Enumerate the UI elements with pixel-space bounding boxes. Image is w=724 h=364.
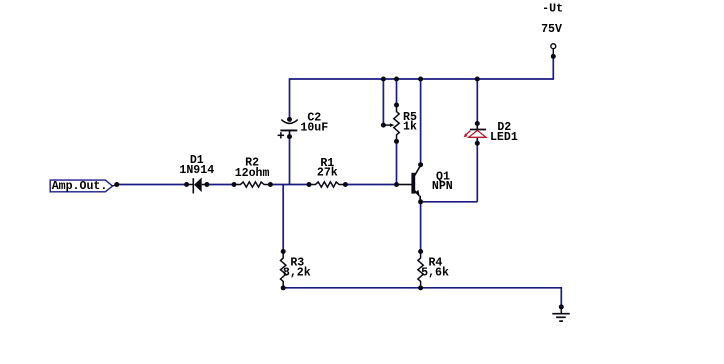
svg-text:27k: 27k [317,167,338,180]
svg-text:1N914: 1N914 [179,164,214,177]
svg-text:NPN: NPN [432,180,453,193]
svg-text:12ohm: 12ohm [235,167,270,180]
svg-text:Amp.Out.: Amp.Out. [52,180,108,193]
svg-text:8,2k: 8,2k [283,266,311,279]
svg-text:5,6k: 5,6k [421,266,449,279]
svg-text:-Ut: -Ut [542,3,563,16]
svg-text:75V: 75V [541,23,562,36]
svg-text:LED1: LED1 [490,131,518,144]
svg-text:1k: 1k [403,121,417,134]
svg-text:10uF: 10uF [300,122,328,135]
